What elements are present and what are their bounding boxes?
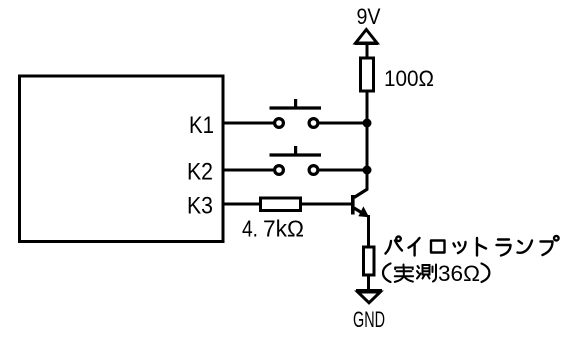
wire lamp to GND [367, 275, 370, 291]
svg-text:7kΩ: 7kΩ [263, 216, 304, 242]
wire K1 from box [223, 122, 274, 125]
transistor Q1 emitter stroke [354, 208, 366, 215]
svg-text:4.: 4. [242, 216, 258, 242]
svg-text:GND: GND [353, 307, 385, 332]
kana RO [431, 241, 445, 253]
transistor Q1 base bar [351, 195, 355, 215]
ground symbol [356, 291, 382, 303]
wire SW1 to node A [319, 122, 368, 125]
kana small TSU [454, 242, 466, 253]
kana I [409, 238, 420, 256]
kana RA [497, 240, 511, 256]
wire K3 from box [223, 203, 261, 206]
kana PU [541, 236, 559, 255]
wire SW2 to node B [319, 169, 368, 172]
wire R1 to collector [366, 91, 369, 190]
svg-text:100Ω: 100Ω [384, 66, 434, 91]
full-width open paren [383, 264, 391, 283]
svg-text:9V: 9V [357, 4, 381, 29]
switch SW1 left contact [275, 119, 284, 128]
wire 9V to R1 [366, 44, 369, 59]
resistor R1 100ohm [361, 58, 374, 91]
kana PA [386, 237, 403, 254]
switch SW2 actuator stem [294, 146, 297, 155]
wire R2 to base [301, 203, 352, 206]
full-width close paren [482, 264, 490, 283]
IC box U1 [20, 76, 224, 242]
lamp resistance body [364, 247, 375, 275]
switch SW2 left contact [275, 166, 284, 175]
switch SW2 right contact [309, 166, 318, 175]
svg-text:K3: K3 [187, 193, 213, 220]
resistor R2 4.7k [261, 198, 301, 211]
svg-text:K2: K2 [187, 159, 213, 186]
kana N [518, 241, 533, 253]
kanji JITSU (actual) [395, 265, 413, 282]
label measured-36-ohm line [383, 261, 489, 286]
transistor Q1 emitter arrowhead [358, 206, 369, 217]
kanji SOKU (measure) [417, 265, 436, 282]
svg-text:K1: K1 [189, 112, 214, 139]
switch SW2 actuator bar [270, 153, 322, 156]
switch SW1 actuator stem [294, 99, 297, 108]
junction node A [363, 119, 372, 128]
wire emitter to lamp [367, 215, 370, 248]
svg-text:36Ω: 36Ω [438, 261, 480, 286]
switch SW1 right contact [309, 119, 318, 128]
transistor Q1 collector stroke [354, 189, 368, 198]
switch SW1 actuator bar [270, 106, 322, 109]
wire K2 from box [223, 169, 274, 172]
kana TO [477, 238, 486, 256]
label pilot-lamp (katakana) [386, 236, 559, 256]
junction node B [363, 166, 372, 175]
9V power arrow [355, 30, 378, 44]
